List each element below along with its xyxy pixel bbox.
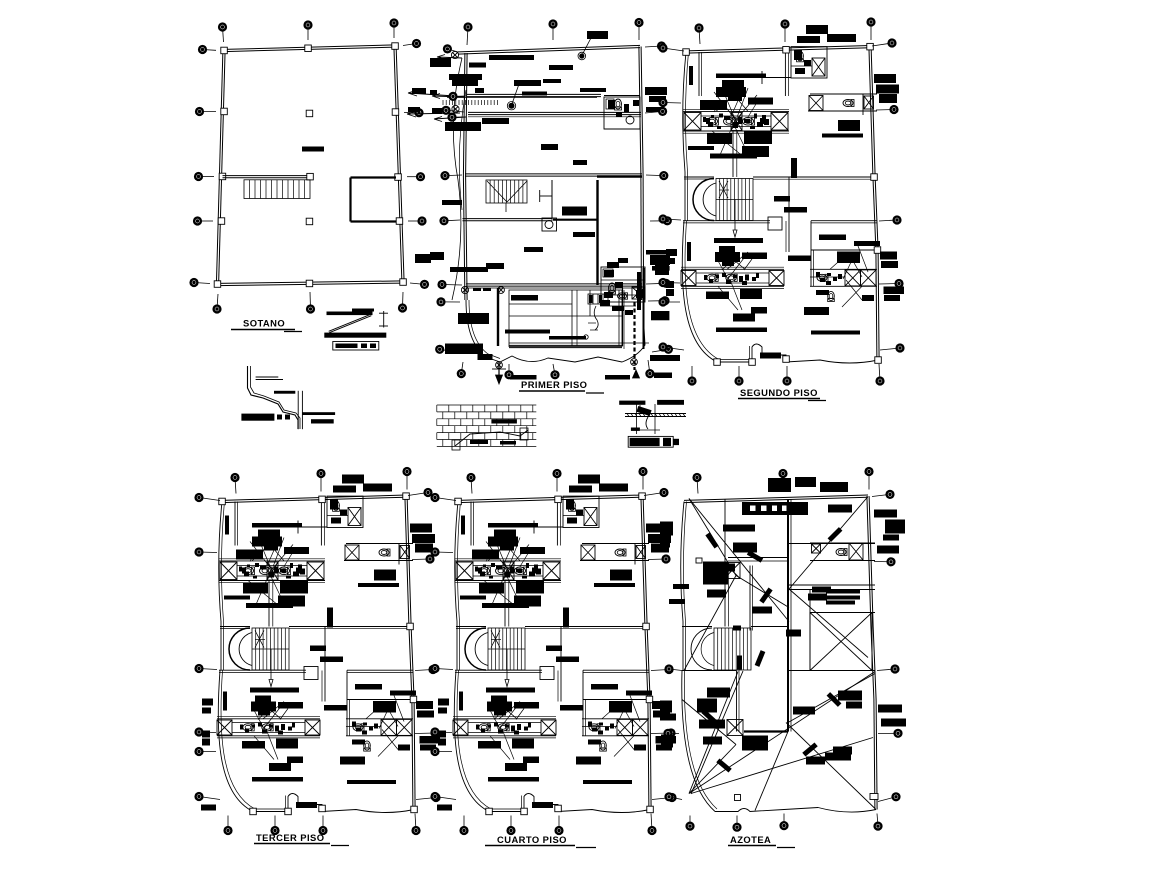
svg-text:SOTANO: SOTANO [243,318,285,329]
svg-text:SEGUNDO PISO: SEGUNDO PISO [740,387,818,398]
svg-text:AZOTEA: AZOTEA [730,834,771,845]
svg-text:CUARTO PISO: CUARTO PISO [497,834,567,845]
svg-text:TERCER PISO: TERCER PISO [256,832,325,843]
svg-text:PRIMER PISO: PRIMER PISO [521,379,587,390]
